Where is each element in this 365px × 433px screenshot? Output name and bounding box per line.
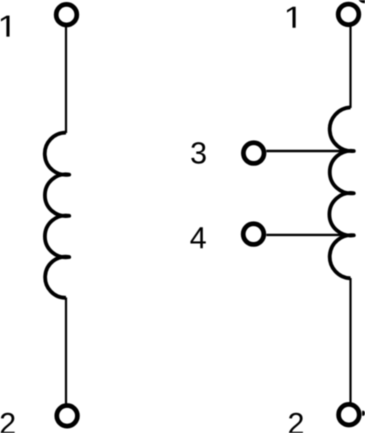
pin label 4 (L2 tap) xyxy=(190,227,205,248)
inductor L2 coil (4 arcs, tapped, right) xyxy=(329,107,353,278)
cropped mark at top-right edge xyxy=(359,0,365,3)
terminal pin 1 of inductor L2 (top circle) xyxy=(338,4,359,25)
pin label 2 (L2 bottom) xyxy=(289,413,303,433)
terminal pin 2 of inductor L2 (bottom circle) xyxy=(339,404,360,425)
pin label 1 (L2 top) xyxy=(287,7,296,28)
terminal pin 1 of inductor L1 (top circle) xyxy=(56,4,77,25)
inductor L1 coil (4 arcs, left) xyxy=(45,133,69,298)
terminal pin 3 (tap circle) xyxy=(243,143,264,164)
pin label 2 (L1 bottom) xyxy=(1,413,15,433)
wire: L1 pin1 to coil top xyxy=(65,27,67,133)
wire: pin 4 to coil tap (cusp 3) xyxy=(266,234,353,236)
pin label 1 (L1 top) xyxy=(1,16,10,37)
wire: coil bottom to L2 pin2 xyxy=(349,278,351,404)
wire: pin 3 to coil tap (cusp 1) xyxy=(266,150,353,152)
pin label 3 (L2 tap) xyxy=(191,142,205,164)
wire: coil bottom to L1 pin2 xyxy=(65,298,67,405)
terminal pin 2 of inductor L1 (bottom circle) xyxy=(57,406,78,427)
wire: L2 pin1 to coil top xyxy=(349,27,351,109)
cropped mark at right edge near pin 2 circle xyxy=(362,411,365,416)
terminal pin 4 (tap circle) xyxy=(243,224,264,245)
